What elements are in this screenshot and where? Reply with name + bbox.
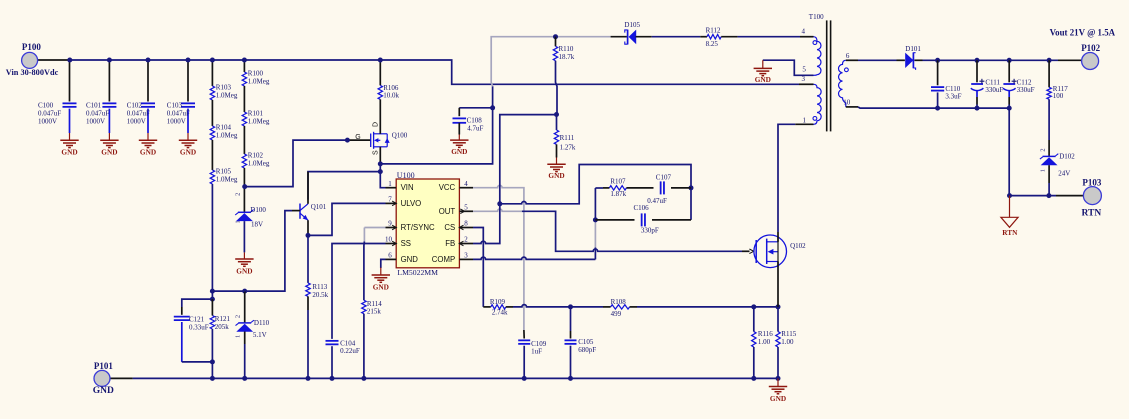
wire D105 to R112 [652,36,701,38]
svg-text:R115: R115 [781,330,796,338]
svg-text:RTN: RTN [1002,228,1018,237]
port P103 (RTN) [1083,187,1101,205]
resistor R121 [210,316,214,330]
capacitor C109 [518,339,530,341]
svg-text:Q101: Q101 [311,203,327,211]
svg-text:2: 2 [234,193,241,196]
svg-text:1.0Meg: 1.0Meg [248,117,270,125]
svg-text:0.33uF: 0.33uF [189,323,209,331]
svg-text:GND: GND [548,171,564,180]
ground for T100 pin 5 [762,60,764,68]
wire R114 to bottom rail [363,314,365,379]
junction FB divider node [554,112,559,117]
zener diode D102 24V [1043,155,1056,157]
transformer T100 core [826,20,828,131]
svg-text:S: S [373,150,380,155]
svg-text:T100: T100 [809,13,824,21]
wire pin 6 to D101 [846,59,858,61]
capacitor C108 [459,107,492,109]
svg-text:Vout 21V @ 1.5A: Vout 21V @ 1.5A [1050,27,1116,37]
svg-text:1.0Meg: 1.0Meg [248,159,270,167]
svg-text:680pF: 680pF [578,346,596,354]
RTN power symbol [1009,196,1011,218]
wire R108 to sense node [637,306,778,308]
wire FB pin riser [473,115,500,244]
svg-text:1: 1 [388,180,392,188]
wire COMP pin to comp network [473,257,595,259]
svg-text:2: 2 [235,315,242,318]
ground for C101 [108,133,110,140]
capacitor C101 [108,60,110,102]
junction R105/R121 node [210,289,215,294]
wire: pin3 black lead [799,83,814,85]
junction C106 left [593,217,598,222]
resistor R111 [556,115,558,130]
svg-text:0.047uF: 0.047uF [86,109,109,117]
svg-text:1.87k: 1.87k [610,190,626,198]
capacitor C112 (polarized) [1008,60,1010,82]
svg-text:18.7k: 18.7k [559,53,575,61]
svg-text:COMP: COMP [432,255,455,264]
wire R113 to bottom rail [307,296,309,310]
node: gate bias junction wire (R102/D100 to Q100 gate) [244,140,347,187]
svg-text:2: 2 [1039,148,1046,151]
svg-text:GND: GND [180,148,196,157]
wire: P100 lead to input bus [38,59,70,61]
svg-text:330uF: 330uF [1017,86,1035,94]
svg-text:R110: R110 [559,45,574,53]
capacitor C103 [187,60,189,102]
resistor R101 [242,112,246,126]
svg-text:1uF: 1uF [531,348,542,356]
svg-text:RTN: RTN [1082,209,1102,219]
capacitor C104 [326,340,339,342]
svg-text:10: 10 [385,236,393,244]
svg-text:10: 10 [843,99,851,107]
junction comp network corner [689,185,694,190]
svg-text:R109: R109 [490,298,506,306]
junction Q101 emitter node [306,233,311,238]
wire R102 to D100 [243,168,245,212]
U100 pin 8 stub [459,227,473,229]
svg-text:D102: D102 [1059,153,1075,161]
wire Q102 drain lead [777,232,779,242]
transformer T100 primary winding 4-5 [814,37,821,76]
svg-text:1000V: 1000V [167,117,186,125]
svg-text:4: 4 [802,27,806,35]
U100 pin 10 stub [386,243,397,245]
svg-text:0.047uF: 0.047uF [38,109,61,117]
wire R117 to D102 [1048,99,1050,140]
svg-text:1.00: 1.00 [758,338,771,346]
diode D101 [897,59,905,61]
wire Q101 base to zener node [245,211,292,292]
svg-text:1000V: 1000V [38,117,57,125]
U100 pin 2 stub [459,243,473,245]
resistor R114 [362,300,366,314]
wire R110 to FB node (jog across bus) [556,61,558,115]
svg-text:1.0Meg: 1.0Meg [216,175,238,183]
port P102 (Vout) [1082,53,1099,70]
svg-text:P103: P103 [1082,178,1101,188]
svg-text:C101: C101 [86,101,102,109]
resistor R104 [210,126,214,140]
wire to R108 [571,306,604,308]
wire: aux supply gray feed to D105 [491,37,610,87]
svg-text:1.0Meg: 1.0Meg [216,131,238,139]
svg-text:GND: GND [755,75,771,84]
svg-text:GND: GND [140,148,156,157]
svg-text:RT/SYNC: RT/SYNC [401,223,435,232]
svg-text:499: 499 [611,310,622,318]
wire node to Q101 base line [212,290,244,292]
junction output rail dots [935,58,940,63]
svg-text:LM5022MM: LM5022MM [397,268,438,277]
transformer T100 primary winding 3-1 [814,84,822,124]
capacitor C110 [937,60,939,85]
svg-text:8.25: 8.25 [706,40,719,48]
svg-text:C105: C105 [578,338,594,346]
svg-text:9: 9 [388,220,392,228]
svg-text:R107: R107 [610,178,626,186]
svg-text:R108: R108 [611,298,627,306]
U100 pin 4 stub [459,187,473,189]
svg-text:18V: 18V [251,220,263,228]
svg-text:D110: D110 [254,319,270,327]
resistor R110 [555,37,557,47]
wire OUT pin to gate drive [473,209,522,211]
wire Q100 source to VIN node [379,147,381,164]
wire Q101 emitter to R113/ULVO node [307,220,309,235]
svg-text:D101: D101 [905,45,921,53]
wire D110 anode to bottom rail [244,332,246,345]
svg-text:FB: FB [445,239,455,248]
svg-text:2.74k: 2.74k [492,309,508,317]
transistor Q100 (depletion MOSFET) [370,134,372,148]
svg-text:C121: C121 [189,316,205,324]
wire RT/SYNC to R114 (gray) [364,227,385,229]
resistor R112 [700,36,707,38]
svg-text:D: D [372,122,379,127]
svg-text:C107: C107 [656,174,672,182]
wire VIN node to bias network (left) [308,172,380,200]
wire D102 to RTN row [1048,165,1050,183]
junction D105 row / R110 [553,34,558,39]
svg-text:1000V: 1000V [127,117,146,125]
svg-text:4: 4 [464,180,468,188]
svg-text:100: 100 [1053,92,1064,100]
resistor R102 [242,154,246,168]
capacitor C107 [660,181,662,194]
svg-text:G: G [355,134,360,141]
svg-text:215k: 215k [367,308,382,316]
capacitor C106 row [595,219,634,221]
resistor R103 [211,60,213,86]
svg-text:R116: R116 [758,330,773,338]
zener diode D110 5.1V [244,291,246,323]
wire pin1 to Q102 drain [795,123,813,125]
capacitor C102 [147,60,149,102]
resistor R115 [777,307,779,332]
resistor R113 [307,235,309,283]
svg-text:D100: D100 [250,206,266,214]
svg-text:20.5k: 20.5k [312,291,328,299]
svg-text:8: 8 [464,220,468,228]
wire: VIN top rail to transformer pin 3 [70,60,799,84]
ground for C108 [458,135,460,141]
bottom ground rail [133,377,778,379]
wire R103-R104 [211,100,213,126]
U100 pin 1 stub [386,187,397,189]
wire SS to C104 [332,244,386,339]
wire VIN node vertical to U100 pin1 [380,164,385,188]
svg-text:5.1V: 5.1V [253,331,267,339]
svg-text:330pF: 330pF [641,226,659,234]
junction C105 top [568,304,573,309]
svg-text:GND: GND [451,147,467,156]
wire Q102 source to sense node [777,262,779,307]
resistor R108 [611,305,630,309]
wire C121 bottom loop [182,361,213,363]
svg-text:1.00: 1.00 [781,338,794,346]
svg-text:C106: C106 [634,204,650,212]
ground for C100 [69,133,71,140]
svg-text:GND: GND [401,255,419,264]
svg-text:C100: C100 [38,101,54,109]
svg-text:2: 2 [464,236,468,244]
U100 pin 6 stub [386,258,397,260]
ground for C103 [187,133,189,140]
svg-text:U100: U100 [397,171,415,180]
svg-text:SS: SS [401,239,411,248]
svg-text:P101: P101 [94,361,113,371]
capacitor C121 [174,316,190,318]
svg-text:VIN: VIN [401,183,414,192]
svg-text:C108: C108 [467,116,483,124]
svg-text:P100: P100 [22,42,41,52]
U100 pin 3 stub [459,258,473,260]
svg-text:5: 5 [464,204,468,212]
svg-text:1000V: 1000V [86,117,105,125]
capacitor C105 [570,307,572,331]
junction FB node [497,201,502,206]
svg-text:VCC: VCC [439,183,456,192]
port P101 (GND) [94,370,110,386]
svg-text:CS: CS [444,223,455,232]
wire comp network left vertical [594,188,596,220]
junction dots on rails [67,58,72,63]
resistor R107 [595,187,603,189]
svg-text:10.0k: 10.0k [383,92,399,100]
U100 pin 5 stub [459,210,473,212]
zener diode D100 18V [238,211,251,213]
wire VIN node to C108/D105 riser [380,86,492,164]
svg-text:C109: C109 [531,340,547,348]
junction C108 riser [490,105,495,110]
wire C109 to bottom rail [523,346,525,379]
wire VCC pin to C109 (gray) [473,185,524,330]
svg-text:1.0Meg: 1.0Meg [216,91,238,99]
svg-text:R111: R111 [560,134,575,142]
port P100 (Vin) [22,52,38,68]
svg-text:0.047uF: 0.047uF [167,109,190,117]
wire R112 to transformer pin 4 [738,36,800,38]
svg-text:OUT: OUT [439,207,456,216]
ground for R111 [556,144,558,157]
wire emitter node to ULVO pin [308,203,386,235]
svg-text:Q100: Q100 [392,132,408,140]
junction return rail dots [935,106,940,111]
svg-text:0.22uF: 0.22uF [340,347,360,355]
wire pin 10 return rail [846,106,858,108]
wire C104 to bottom rail [331,346,333,378]
svg-text:GND: GND [236,266,252,275]
wire Q101 base lead [292,210,300,212]
svg-text:5: 5 [802,66,806,74]
transistor Q102 (N-MOSFET) [754,235,787,268]
diode D105 [611,36,627,38]
wire FB node to comp network [500,165,691,220]
svg-text:3: 3 [802,75,806,83]
wire R104-R105 [211,140,213,170]
svg-text:GND: GND [770,394,786,403]
wire D100 anode to ground [243,221,245,252]
transformer T100 secondary winding 6-10 [839,60,846,107]
ground for U100 pin 6 [380,268,382,276]
svg-text:D105: D105 [624,21,640,29]
resistor R109 [483,306,491,308]
wire R109 to R108 row [513,305,571,307]
wire CS pin riser to R109 [473,228,483,307]
svg-text:6: 6 [846,52,850,60]
wire gate black lead and arrow [742,250,750,252]
svg-text:330uF: 330uF [985,86,1003,94]
capacitor C100 [69,60,71,102]
svg-text:GND: GND [61,148,77,157]
svg-text:7: 7 [388,196,392,204]
svg-text:0.47uF: 0.47uF [647,197,667,205]
svg-text:R121: R121 [215,315,231,323]
wire Q101 collector to VIN node [307,172,309,204]
transistor Q101 (NPN) [299,204,301,219]
ground for C102 [147,133,149,140]
svg-text:GND: GND [373,282,389,291]
capacitor C111 (polarized) [976,60,978,82]
svg-text:GND: GND [93,386,114,396]
svg-text:Vin 30-800Vdc: Vin 30-800Vdc [6,68,59,77]
svg-text:GND: GND [101,148,117,157]
resistor R106 [379,60,381,85]
op-amp U100 LM5022MM body [396,179,459,268]
svg-text:6: 6 [388,252,392,260]
zener node wire to D110 [242,289,247,294]
svg-text:205k: 205k [215,323,230,331]
junction RTN row [1007,193,1012,198]
svg-text:R112: R112 [706,27,721,35]
svg-text:3.3uF: 3.3uF [945,92,961,100]
port P101 lead [110,377,133,379]
resistor R116 [753,307,755,332]
svg-text:1: 1 [803,117,807,125]
svg-text:ULVO: ULVO [401,199,422,208]
svg-text:C102: C102 [127,101,143,109]
U100 pin 9 stub [386,227,397,229]
resistor R105 [210,170,214,184]
wire R101-R102 [243,126,245,154]
wire RTN row to P103 [1010,195,1057,197]
svg-text:Q102: Q102 [790,242,806,250]
junction sense nodes [751,304,756,309]
resistor R117 [1048,60,1050,87]
svg-text:1: 1 [235,335,242,338]
wire pin5 to ground [763,60,814,75]
svg-text:0.047uF: 0.047uF [127,109,150,117]
wire GND pin to ground [381,259,386,268]
wire R100-R101 [243,86,245,112]
wire R105 to node [211,184,213,299]
wire R106 to Q100 drain [379,99,381,133]
svg-text:24V: 24V [1058,169,1070,177]
ground bottom right [777,378,779,386]
capacitor C121 top loop wire [182,299,213,307]
svg-text:C103: C103 [167,101,183,109]
resistor R100 [243,60,245,72]
svg-text:1.27k: 1.27k [560,143,576,151]
wire R121 to bottom rail [211,299,213,315]
svg-text:1.0Meg: 1.0Meg [248,77,270,85]
svg-text:4.7uF: 4.7uF [467,125,483,133]
svg-text:1: 1 [1039,169,1046,172]
svg-text:3: 3 [464,252,468,260]
wire output rail to P102 [923,59,1059,61]
ground for D100 [243,252,245,259]
svg-text:P102: P102 [1081,43,1100,53]
U100 pin 7 stub [386,202,397,204]
wire: Q100 gate lead [347,139,370,141]
svg-text:1: 1 [234,220,241,223]
